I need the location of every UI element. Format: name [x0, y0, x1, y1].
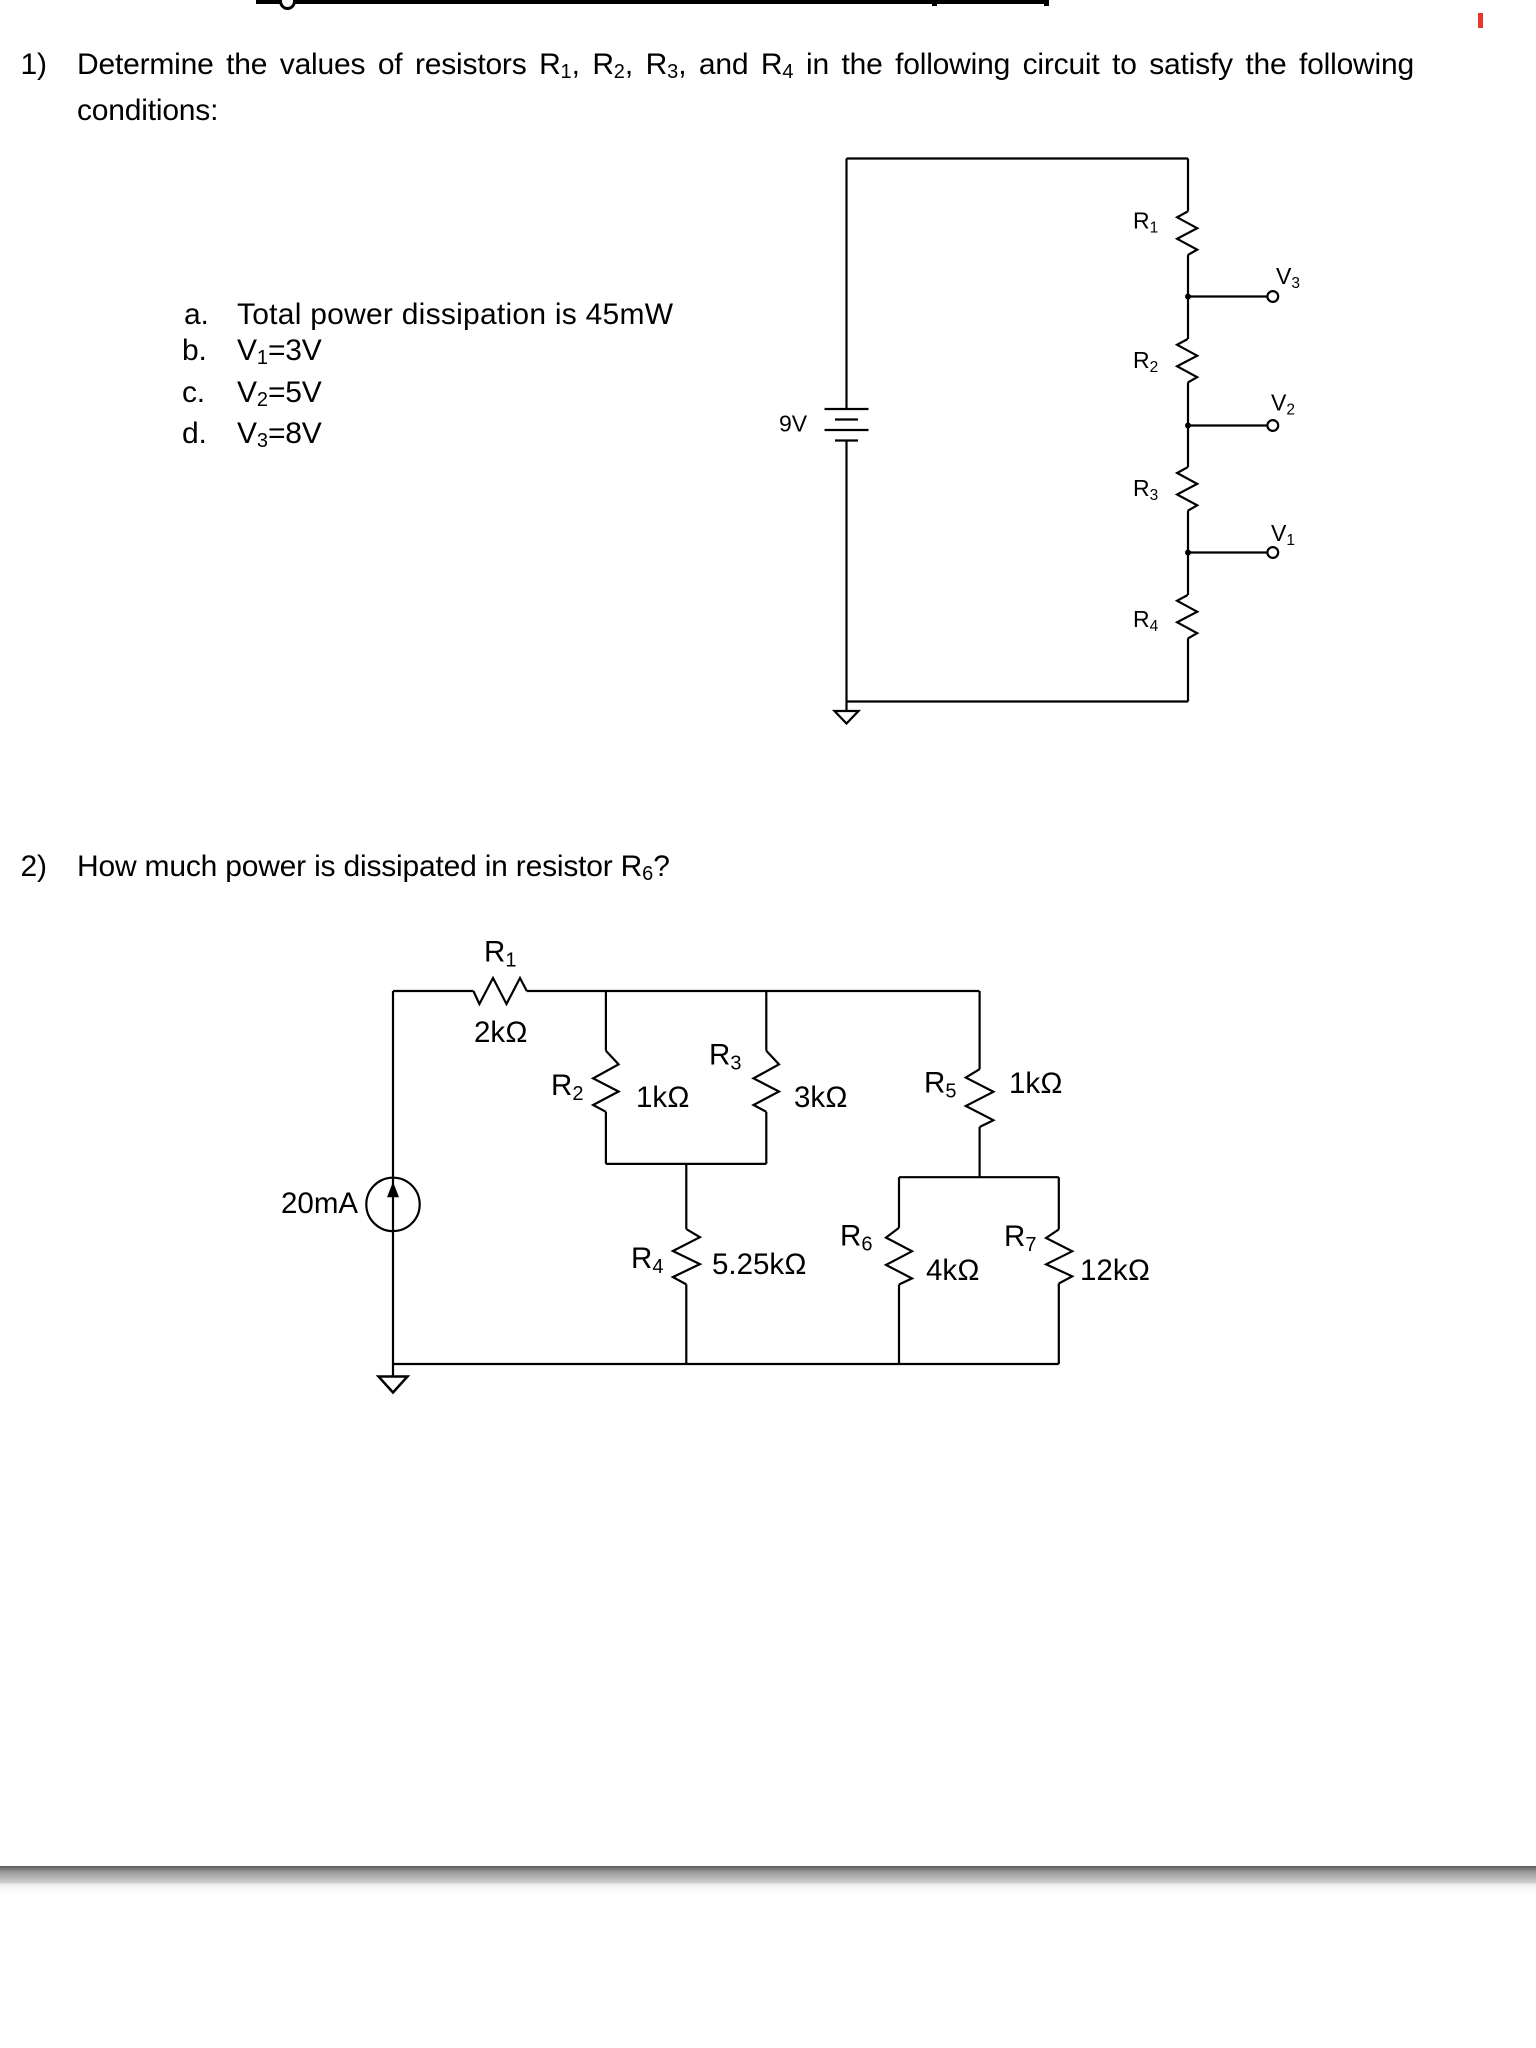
resistor R4 (circuit 1)	[1177, 595, 1197, 639]
svg-text:1kΩ: 1kΩ	[636, 1081, 690, 1114]
svg-text:V1: V1	[1271, 520, 1295, 549]
wire R3 to bar	[765, 1112, 767, 1164]
node V2 tap	[1185, 420, 1278, 431]
svg-text:R3: R3	[709, 1038, 741, 1074]
problem 1 text	[77, 42, 1414, 134]
svg-text:V2: V2	[1271, 390, 1295, 419]
svg-text:R1: R1	[484, 936, 516, 972]
problem 1 number	[21, 42, 47, 88]
wire top left (circuit 2)	[393, 990, 473, 992]
resistor R1 (circuit 2, horizontal)	[473, 978, 526, 1004]
resistor R6 (circuit 2)	[886, 1228, 912, 1285]
wire bottom (circuit 1)	[847, 700, 1189, 702]
wire R7 to bottom	[1058, 1284, 1060, 1365]
wire R5 to bar2	[978, 1127, 980, 1177]
svg-text:R2: R2	[551, 1069, 583, 1105]
svg-text:1kΩ: 1kΩ	[1009, 1067, 1063, 1100]
wire right segment above R1	[1187, 159, 1189, 212]
wire R4 to bottom	[685, 1284, 687, 1364]
branch R2 stem from top wire	[605, 991, 607, 1051]
wire bottom (circuit 2)	[393, 1363, 1059, 1365]
resistor R2 (circuit 2)	[593, 1051, 619, 1112]
wire left vertical (circuit 2)	[392, 991, 394, 1364]
svg-text:2kΩ: 2kΩ	[474, 1016, 528, 1049]
svg-text:5.25kΩ: 5.25kΩ	[712, 1248, 807, 1281]
wire left lower (circuit 1)	[845, 441, 847, 702]
svg-text:12kΩ: 12kΩ	[1080, 1254, 1150, 1287]
branch R5 from top wire right corner	[978, 991, 980, 1069]
wire R3 to R4	[1187, 511, 1189, 595]
page break shadow band	[0, 1866, 1536, 1896]
svg-text:V3: V3	[1276, 263, 1300, 292]
wire R2 to bar	[605, 1112, 607, 1164]
wire top (circuit 1)	[847, 157, 1189, 159]
resistor R3 (circuit 1)	[1177, 467, 1197, 511]
wire top right (circuit 2)	[527, 990, 980, 992]
svg-text:R5: R5	[924, 1067, 956, 1103]
node V1 tap	[1185, 547, 1278, 558]
resistor R2 (circuit 1)	[1177, 339, 1197, 383]
bar joining R2,R3	[606, 1163, 766, 1165]
svg-text:3kΩ: 3kΩ	[794, 1081, 848, 1114]
wire left upper (circuit 1)	[845, 159, 847, 410]
ground (circuit 2)	[379, 1364, 408, 1393]
node V3 tap	[1185, 291, 1278, 302]
bar2 joining R6,R7 tops	[899, 1176, 1059, 1178]
current source 20mA	[366, 1178, 419, 1231]
svg-text:R7: R7	[1004, 1220, 1036, 1256]
p stem remnants	[932, 0, 937, 6]
svg-text:4kΩ: 4kΩ	[926, 1254, 980, 1287]
svg-text:R2: R2	[1133, 347, 1158, 376]
resistor R5 (circuit 2)	[966, 1069, 994, 1127]
battery V 9V	[825, 409, 869, 441]
wire R2 to R3	[1187, 383, 1189, 468]
wire bar2 to R6	[898, 1177, 900, 1228]
red revision mark top right	[1478, 13, 1483, 28]
svg-text:9V: 9V	[779, 411, 808, 437]
svg-text:R4: R4	[631, 1242, 663, 1278]
svg-text:R3: R3	[1133, 475, 1158, 504]
ground (circuit 1)	[835, 702, 859, 724]
wire R4 to bottom	[1187, 639, 1189, 702]
svg-text:R6: R6	[840, 1220, 872, 1256]
remnant of cut-off underlined heading at top edge	[256, 0, 1047, 4]
wire R6 to bottom	[898, 1285, 900, 1365]
branch R3 stem from top wire	[765, 991, 767, 1051]
resistor R3 (circuit 2)	[754, 1051, 780, 1112]
stem bar to R4	[685, 1164, 687, 1229]
problem 2 number	[21, 844, 47, 890]
wire bar2 to R7	[1058, 1177, 1060, 1229]
resistor R7 (circuit 2)	[1046, 1229, 1072, 1283]
problem 2 text	[77, 844, 670, 890]
list a-d	[184, 292, 209, 338]
svg-text:R4: R4	[1133, 606, 1159, 635]
g descender remnant	[279, 0, 296, 10]
svg-text:R1: R1	[1133, 208, 1158, 237]
resistor R1 (circuit 1)	[1177, 212, 1197, 256]
resistor R4 (circuit 2)	[673, 1229, 700, 1284]
svg-text:20mA: 20mA	[281, 1187, 358, 1220]
wire R1 to R2	[1187, 255, 1189, 339]
